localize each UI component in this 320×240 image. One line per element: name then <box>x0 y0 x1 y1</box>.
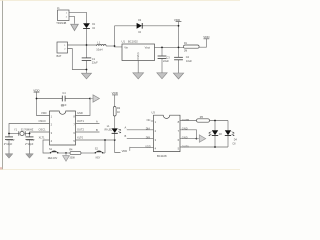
ground arrow hollow right (top rail) <box>93 95 99 102</box>
wire C2 leads <box>161 47 163 56</box>
resistor R2 vertical <box>113 107 116 117</box>
capacitor C6 <box>26 137 34 140</box>
wire R2 to LED1 <box>114 116 116 128</box>
junction node pins 6/7 <box>196 138 198 140</box>
capacitor C2 <box>158 56 167 59</box>
wire U2 pin6 net B <box>76 131 100 133</box>
inductor L1 <box>97 44 107 46</box>
svg-text:1N: 1N <box>92 28 95 30</box>
wire rail to C4 bypass <box>37 98 63 100</box>
wire U2 pin2 to crystal left <box>9 124 50 134</box>
wire BAT pin2 down <box>68 49 87 70</box>
wire net A to U3 pin2 <box>127 129 154 131</box>
svg-text:TR1N4B: TR1N4B <box>56 21 66 25</box>
svg-text:22uF: 22uF <box>163 59 169 63</box>
svg-text:C3: C3 <box>166 56 170 60</box>
wire L1 to Vin junction <box>106 45 114 47</box>
svg-text:D: D <box>137 57 139 61</box>
LED D3 <box>209 130 223 136</box>
svg-text:IR-LED: IR-LED <box>104 128 112 131</box>
wire C5 top lead <box>8 134 10 137</box>
U2 pin names <box>39 111 85 140</box>
svg-text:Vin: Vin <box>124 46 128 50</box>
wire riser S2 to pin5 row <box>104 140 106 153</box>
junction node L1/Vin/D2 <box>114 45 116 47</box>
svg-text:VDD: VDD <box>122 149 128 153</box>
wire C3 bottom lead <box>178 60 180 73</box>
wire J1 pin2 to ground arrow <box>69 16 75 23</box>
wire bottom rail to U3 pin5 <box>180 146 228 148</box>
svg-text:2*10pF: 2*10pF <box>25 142 34 146</box>
wire VDD stem <box>178 22 180 26</box>
svg-text:REF-DIV: REF-DIV <box>48 157 58 160</box>
wire U2 pin7 net A <box>76 123 100 125</box>
svg-text:B: B <box>96 128 98 132</box>
U3 pin numbers <box>155 120 180 150</box>
capacitor C5 bypass (inline plates) <box>62 96 65 102</box>
junction node D2/VDD <box>178 25 180 27</box>
power symbol VDD (above R1) <box>203 35 210 39</box>
wire gnd column down to U2 pin8 <box>76 99 91 116</box>
ground C2 filled <box>157 73 167 79</box>
wire BAT pin1 to node <box>68 44 97 46</box>
svg-text:10uF: 10uF <box>186 59 192 63</box>
svg-text:10uH: 10uH <box>96 47 102 51</box>
wire D2 cathode to VDD node <box>142 25 178 27</box>
switch S2 <box>95 151 104 154</box>
wire R4 to S2 <box>81 152 95 154</box>
power symbol VDD (above R2) <box>112 91 119 95</box>
svg-text:A: A <box>96 119 98 123</box>
wire LED1 to bottom rail <box>214 136 216 147</box>
junction node LED1 top <box>214 120 216 122</box>
wire R5 to LED top rail <box>210 120 229 122</box>
connector J1 pin numbers <box>66 13 68 19</box>
wire U3 pins 7-6 tie <box>180 130 197 139</box>
svg-text:Vout: Vout <box>145 46 151 50</box>
wire crystal right lead <box>25 133 29 135</box>
wire C6 top lead <box>29 134 31 137</box>
svg-text:KEY: KEY <box>96 156 101 159</box>
LED L1 (IR) <box>112 128 121 133</box>
junction node gnd rail <box>89 98 91 100</box>
diode D2 <box>137 20 143 34</box>
svg-text:U3: U3 <box>152 111 156 115</box>
wire ground stem BAT <box>86 70 88 74</box>
frame bottom edge tint <box>0 169 240 171</box>
ground arrow hollow right (U3) <box>197 135 206 142</box>
svg-text:GND: GND <box>77 111 83 115</box>
ground U1 filled <box>133 73 144 79</box>
wire U3 pin1 stub <box>151 120 154 122</box>
wire net B to U3 pin3 <box>127 138 154 140</box>
wire S1 to gnd node <box>58 152 70 154</box>
wire LED1 to pin5 row <box>114 134 116 140</box>
svg-text:OUT1: OUT1 <box>77 119 84 123</box>
svg-text:C4: C4 <box>186 55 190 59</box>
MCU U2 box <box>50 111 76 145</box>
wire C6 bottom lead <box>29 140 31 154</box>
wire R1 right lead up to VDD <box>199 39 206 47</box>
frame left border line <box>2 0 4 170</box>
wire U1 GND pin <box>137 61 139 73</box>
junction node S1/R4 <box>65 152 67 154</box>
diode D1 <box>83 23 96 30</box>
ground C5 small <box>5 154 13 158</box>
wire C3 top lead <box>178 47 180 57</box>
svg-text:32.768KHZ: 32.768KHZ <box>21 128 34 131</box>
svg-text:VDD: VDD <box>203 35 210 39</box>
ground arrow hollow (bottom) <box>63 153 70 161</box>
wire J1 pin1 to D1 <box>69 12 87 23</box>
wire C1 top <box>86 45 88 58</box>
svg-text:2M: 2M <box>184 51 187 53</box>
wire LED2 drop <box>227 121 229 131</box>
svg-text:C1: C1 <box>92 57 96 61</box>
svg-text:OSC1: OSC1 <box>39 128 47 132</box>
svg-text:U1: U1 <box>122 40 126 44</box>
frame top edge tint <box>0 0 240 1</box>
svg-text:BAT: BAT <box>57 54 62 58</box>
wire VDD stem to rail <box>36 92 38 98</box>
wire C1 bottom <box>86 61 88 70</box>
resistor R5 <box>197 119 210 122</box>
junction node Vout/C2 <box>161 47 163 49</box>
svg-text:VDD: VDD <box>145 144 151 148</box>
resistor R1 <box>184 45 200 48</box>
wire LED2 to bottom rail <box>227 136 229 147</box>
power symbol VDD (above U2) <box>33 88 40 92</box>
capacitor C5 <box>5 137 13 140</box>
driver U3 box <box>154 115 181 151</box>
svg-text:XLT1: XLT1 <box>39 136 46 140</box>
switch S1 <box>50 151 59 154</box>
connector BAT box <box>57 42 68 53</box>
capacitor C1 <box>82 58 92 61</box>
wire VDD column down to U2 pin1 <box>37 99 50 116</box>
svg-text:B: B <box>125 134 127 138</box>
wire node to D2 anode <box>115 25 137 27</box>
wire C5 bottom lead <box>8 140 10 154</box>
regulator U1 box <box>122 44 155 61</box>
svg-text:1K: 1K <box>117 111 120 114</box>
junction node VDD rail <box>36 98 38 100</box>
capacitor C3 <box>174 57 183 60</box>
junction node LED1 bottom <box>214 146 216 148</box>
LED D4 <box>225 130 238 145</box>
crystal Y1 <box>19 131 25 136</box>
wire VDD node down to Vout rail <box>178 26 180 48</box>
junction node crystal right <box>29 133 31 135</box>
wire U2 pin3 to crystal right <box>30 132 50 134</box>
junction node LED column <box>114 139 116 141</box>
connector BAT pin numbers <box>64 45 66 51</box>
junction node BAT/D1 <box>86 44 88 46</box>
wire LED column lower <box>115 140 121 153</box>
svg-text:OSC0: OSC0 <box>39 119 47 123</box>
wire node up to D2 row <box>114 26 116 46</box>
svg-text:NC: NC <box>147 118 151 122</box>
svg-text:XLT0: XLT0 <box>77 136 84 140</box>
svg-text:BC1108: BC1108 <box>157 154 167 158</box>
ground arrow hollow under J1 <box>71 24 79 30</box>
ground BAT filled <box>82 73 92 79</box>
svg-text:BC1002: BC1002 <box>128 40 138 44</box>
wire U2 pin4 down to S1 <box>43 140 50 153</box>
svg-text:C6 10P: C6 10P <box>27 139 35 142</box>
wire U2 pin5 row <box>76 139 115 141</box>
net label VDD to U3 pin4 <box>122 147 154 153</box>
scan speck <box>0 167 2 169</box>
power symbol VDD (top right of D2) <box>174 18 182 22</box>
wire LED1 drop <box>214 121 216 131</box>
wire C4 bypass to gnd arrow node <box>65 98 90 100</box>
junction node BAT pin2/C1 <box>86 69 88 71</box>
U3 pin names <box>145 118 189 148</box>
svg-text:1N: 1N <box>138 32 141 34</box>
svg-text:VDD: VDD <box>41 111 47 115</box>
ground C3 filled <box>173 73 183 79</box>
svg-text:U2: U2 <box>61 103 65 107</box>
wire node to U1 Vin <box>115 45 123 48</box>
wire U3 pin8 to R5 <box>180 120 197 122</box>
junction node Vout/VDD column <box>178 47 180 49</box>
wire S2 to riser <box>103 152 105 154</box>
wire VDD to R2 <box>114 95 116 107</box>
ground C6 small <box>26 154 34 158</box>
svg-text:OUTB: OUTB <box>182 118 189 122</box>
connector J1 box <box>58 10 70 21</box>
svg-text:OUT2: OUT2 <box>77 128 84 132</box>
svg-text:OUTA: OUTA <box>182 144 189 148</box>
wire crystal left lead <box>9 133 19 135</box>
svg-text:22uF: 22uF <box>92 61 98 65</box>
svg-text:2*10pF: 2*10pF <box>4 142 13 146</box>
svg-text:C5 10P: C5 10P <box>7 139 15 142</box>
svg-text:300K: 300K <box>70 157 76 160</box>
resistor R4 <box>70 151 81 154</box>
wire U1 Vout rail <box>155 46 184 48</box>
wire D1 cathode to node <box>86 29 88 45</box>
junction node crystal left <box>8 133 10 135</box>
wire C2 bottom lead <box>161 59 163 73</box>
U2 pin numbers <box>51 115 76 143</box>
junction node S2 riser <box>104 139 106 141</box>
svg-text:A: A <box>125 125 127 129</box>
